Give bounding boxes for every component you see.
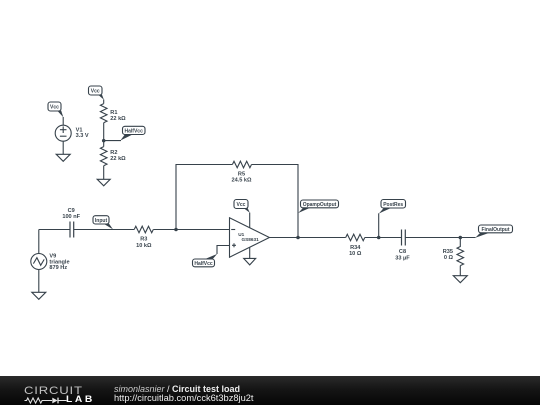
op-amp U1 [230, 218, 270, 257]
flag Vcc (R1) [89, 86, 104, 100]
svg-text:22 kΩ: 22 kΩ [110, 156, 126, 162]
svg-text:10 Ω: 10 Ω [349, 251, 362, 257]
flag Input [93, 216, 113, 230]
svg-text:FinalOutput: FinalOutput [481, 227, 509, 233]
svg-text:100 nF: 100 nF [62, 214, 80, 220]
svg-text:GS8631: GS8631 [242, 237, 260, 242]
flag FinalOutput [475, 225, 512, 238]
flag Vcc (op-amp) [234, 200, 250, 213]
resistor R34 [346, 234, 365, 241]
label R3 value [136, 236, 152, 248]
wire [103, 100, 105, 104]
wire [405, 237, 475, 239]
wire [38, 270, 40, 293]
wire [38, 230, 40, 254]
ground (R2) [97, 179, 110, 186]
voltage source V9 [31, 254, 47, 270]
node output junction [296, 236, 300, 240]
svg-text:OpampOutput: OpampOutput [303, 202, 337, 208]
flag PostRes [379, 200, 406, 214]
wire [103, 166, 105, 180]
CircuitLab logo [24, 385, 83, 397]
svg-text:22 kΩ: 22 kΩ [110, 116, 126, 122]
svg-text:Vcc: Vcc [50, 104, 59, 110]
svg-text:R1: R1 [110, 110, 117, 116]
node PostRes junction [377, 236, 381, 240]
label R5 value [231, 172, 252, 184]
wire [62, 141, 64, 154]
svg-text:Input: Input [95, 218, 108, 224]
wire [39, 229, 70, 231]
wire [176, 165, 232, 230]
footer text [114, 384, 240, 394]
svg-text:R34: R34 [350, 245, 361, 251]
svg-text:R5: R5 [238, 172, 245, 178]
wire [365, 237, 402, 239]
label V1 value [76, 128, 89, 140]
resistor R2 [100, 147, 107, 166]
label C9 value [62, 208, 80, 220]
svg-text:0 Ω: 0 Ω [444, 255, 454, 261]
label V9 value [49, 254, 69, 271]
ground (V1) [56, 154, 70, 161]
ground (V9) [32, 292, 46, 299]
resistor R3 [134, 226, 153, 233]
wire [62, 117, 64, 125]
resistor R5 [232, 161, 251, 168]
node FinalOutput junction [459, 236, 463, 240]
flag Vcc (V1) [48, 102, 63, 117]
label R35 value [443, 249, 454, 261]
svg-text:C9: C9 [68, 208, 75, 214]
flag OpampOutput [298, 200, 338, 213]
svg-text:PostRes: PostRes [383, 202, 403, 208]
svg-text:33 µF: 33 µF [395, 255, 410, 261]
svg-text:Vcc: Vcc [91, 88, 100, 94]
wire [378, 213, 380, 237]
label R1 value [110, 110, 126, 122]
flag HalfVcc (op-amp) [193, 254, 218, 267]
wire + input [217, 246, 230, 255]
svg-text:R3: R3 [140, 236, 147, 242]
svg-text:HalfVcc: HalfVcc [125, 128, 144, 134]
capacitor C9 [70, 222, 74, 238]
resistor R35 [457, 238, 464, 266]
node feedback junction [174, 228, 178, 232]
label R34 value [349, 245, 362, 257]
wire output [269, 237, 345, 239]
wire [459, 266, 461, 276]
label U1 value [238, 232, 259, 242]
capacitor C8 [402, 230, 406, 246]
label C8 value [395, 249, 410, 261]
svg-text:10 kΩ: 10 kΩ [136, 243, 152, 249]
resistor R1 [100, 104, 107, 123]
svg-text:HalfVcc: HalfVcc [194, 261, 213, 267]
wire V- pin [249, 247, 251, 258]
wire [103, 123, 105, 147]
wire [153, 229, 229, 231]
flag HalfVcc (divider) [120, 126, 145, 140]
wire [74, 229, 135, 231]
wire V+ pin [249, 213, 251, 228]
node HalfVcc junction [102, 139, 106, 143]
svg-text:Vcc: Vcc [237, 202, 246, 208]
svg-text:879 Hz: 879 Hz [49, 265, 67, 271]
wire [252, 165, 299, 238]
svg-text:R2: R2 [110, 150, 117, 156]
voltage source V1 [55, 125, 71, 141]
ground (R35) [453, 276, 467, 283]
svg-text:24.5 kΩ: 24.5 kΩ [231, 178, 252, 184]
svg-text:C8: C8 [399, 249, 406, 255]
label R2 value [110, 150, 126, 162]
svg-text:3.3 V: 3.3 V [76, 133, 89, 139]
wire [104, 140, 121, 142]
ground (op-amp) [244, 258, 256, 265]
